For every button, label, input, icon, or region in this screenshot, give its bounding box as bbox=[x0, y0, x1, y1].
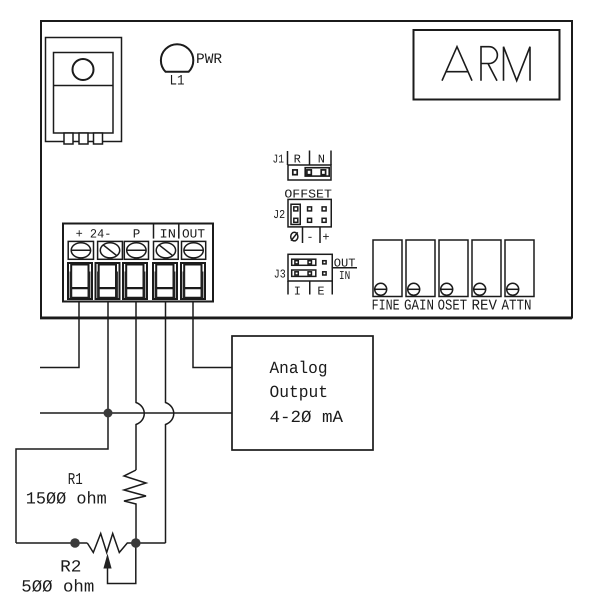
svg-text:REV: REV bbox=[472, 298, 498, 315]
svg-text:L1: L1 bbox=[170, 74, 185, 90]
svg-text:FINE: FINE bbox=[372, 298, 400, 315]
svg-text:P: P bbox=[133, 227, 141, 241]
svg-text:OSET: OSET bbox=[438, 298, 468, 315]
svg-text:R: R bbox=[294, 153, 301, 167]
svg-text:E: E bbox=[317, 284, 324, 298]
svg-text:OFFSET: OFFSET bbox=[284, 188, 332, 202]
svg-text:R2: R2 bbox=[60, 559, 81, 578]
svg-text:GAIN: GAIN bbox=[404, 298, 434, 315]
svg-text:R1: R1 bbox=[68, 470, 83, 489]
svg-text:J1: J1 bbox=[273, 153, 285, 167]
svg-text:ATTN: ATTN bbox=[502, 298, 532, 315]
svg-text:15ØØ ohm: 15ØØ ohm bbox=[26, 491, 107, 510]
svg-text:+ 24-: + 24- bbox=[76, 227, 112, 241]
svg-text:N: N bbox=[318, 153, 325, 167]
svg-text:4-2Ø mA: 4-2Ø mA bbox=[270, 409, 344, 428]
svg-text:J3: J3 bbox=[274, 267, 286, 281]
svg-text:OUT: OUT bbox=[182, 227, 205, 241]
svg-text:IN: IN bbox=[339, 269, 350, 283]
svg-text:I: I bbox=[294, 284, 301, 298]
svg-text:Output: Output bbox=[270, 384, 329, 403]
svg-text:Analog: Analog bbox=[270, 360, 328, 379]
svg-text:J2: J2 bbox=[273, 208, 285, 222]
svg-text:5ØØ ohm: 5ØØ ohm bbox=[21, 578, 94, 597]
svg-text:+: + bbox=[322, 231, 329, 245]
svg-text:PWR: PWR bbox=[196, 52, 222, 68]
svg-text:-: - bbox=[306, 231, 313, 245]
svg-text:IN: IN bbox=[160, 227, 177, 241]
